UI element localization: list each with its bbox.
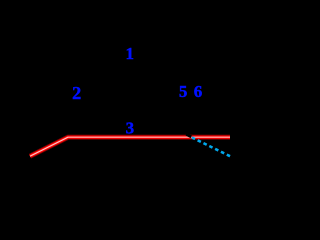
wire: red highlighted net, glow layer: [30, 137, 230, 156]
wire: black dash crossing over red net: [186, 134, 191, 137]
svg-text:2: 2: [72, 83, 81, 103]
wire: red highlighted net, main stroke: [30, 137, 230, 156]
svg-text:6: 6: [194, 82, 203, 101]
svg-text:5: 5: [179, 82, 188, 101]
svg-text:3: 3: [126, 118, 135, 137]
wire: cyan dashed segment: [192, 137, 232, 157]
svg-text:1: 1: [125, 44, 134, 63]
wire: red highlighted net, bright core: [30, 137, 230, 156]
